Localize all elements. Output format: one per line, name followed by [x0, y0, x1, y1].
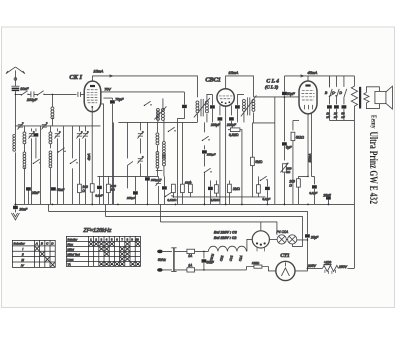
- wire pilots: [286, 238, 307, 241]
- resistor cathode CK1: [90, 184, 94, 192]
- resistor 4,5M x216: [215, 180, 219, 197]
- wire column x50: [49, 126, 51, 205]
- wire antenna coil left: [14, 94, 16, 204]
- svg-text:Mittel: Mittel: [67, 248, 74, 252]
- IFT2 primary coil: [242, 99, 245, 122]
- branch B: [326, 76, 336, 97]
- capacitor 200pF right: [229, 117, 234, 120]
- CBC1 anode rail: [226, 76, 254, 97]
- switch D: [344, 76, 347, 105]
- IFT1 arrow: [194, 98, 210, 118]
- wire to CY1: [246, 267, 275, 271]
- CL4 pin wire: [310, 113, 312, 176]
- switch S10 (TA): [204, 168, 212, 173]
- IFT2 secondary coil: [252, 99, 255, 123]
- primary zigzag: [351, 76, 357, 108]
- secondary zigzag: [364, 92, 369, 103]
- svg-text:+100: +100: [324, 260, 331, 264]
- wire selector to right riser: [347, 267, 354, 269]
- switch S4: [58, 148, 66, 153]
- output bus 265V: [307, 267, 322, 269]
- svg-text:4,5MΩ: 4,5MΩ: [210, 198, 220, 202]
- svg-text:0,1µF: 0,1µF: [262, 197, 270, 201]
- svg-text:A: A: [35, 242, 38, 246]
- tube CL4 envelope: [299, 81, 317, 114]
- voltage selector zigzag: [322, 265, 338, 271]
- wire x100 anode-side: [100, 104, 103, 205]
- svg-text:Kurz: Kurz: [67, 243, 73, 247]
- svg-text:0,3MΩ: 0,3MΩ: [229, 133, 239, 137]
- capacitor 250pF b: [133, 176, 138, 204]
- capacitor 50nF: [51, 187, 56, 190]
- dial lamp pins: [256, 242, 266, 245]
- wire x40: [39, 126, 41, 205]
- CY1 filament: [281, 262, 289, 276]
- osc coil L6: [162, 120, 165, 176]
- node: [307, 268, 309, 270]
- plug body bar: [173, 248, 175, 272]
- CY1 anode wire: [295, 268, 307, 271]
- resistor 0,5M grid CL4: [251, 123, 255, 197]
- svg-text:50µF: 50µF: [286, 92, 295, 96]
- anode rail 45mA: [284, 75, 354, 77]
- capacitor x267: [265, 180, 270, 204]
- AVC wire y196.5: [173, 196, 265, 198]
- svg-text:I: I: [22, 247, 23, 251]
- svg-text:nF: nF: [341, 115, 345, 119]
- svg-text:15mA: 15mA: [228, 71, 238, 75]
- trimmer C-t4: [54, 128, 60, 204]
- dial lamp tube: [252, 231, 269, 248]
- wire to fuses: [174, 251, 187, 270]
- left table X marks: [35, 246, 55, 266]
- svg-text:CY1: CY1: [280, 253, 290, 259]
- capacitor 25nF: [26, 187, 31, 204]
- wires from fuses: [195, 251, 247, 270]
- switch S3: [33, 159, 41, 164]
- speaker magnet: [375, 91, 386, 103]
- wire: [219, 121, 221, 205]
- wire lamp to pilots: [269, 238, 277, 240]
- trimmer C-t3: [28, 128, 34, 204]
- svg-text:P4 C1A: P4 C1A: [276, 230, 288, 234]
- capacitor 50uF: [282, 76, 287, 98]
- capacitor 200pF: [31, 91, 37, 97]
- capacitor 25uF psu: [305, 232, 310, 268]
- IFT1 primary coil: [196, 101, 199, 123]
- svg-text:51kΩ: 51kΩ: [296, 135, 304, 139]
- wire y170 link: [156, 169, 163, 171]
- svg-text:200pF: 200pF: [26, 98, 38, 102]
- bus line 3: [105, 204, 302, 246]
- right table text: [67, 238, 139, 267]
- svg-text:25µF: 25µF: [310, 235, 319, 239]
- trimmer C-t2: [41, 122, 47, 129]
- branch wires: [329, 88, 346, 96]
- svg-text:B: B: [41, 242, 43, 246]
- trimmer C-t8: [137, 156, 143, 176]
- resistor 200ohm: [297, 176, 301, 204]
- svg-text:15mA: 15mA: [93, 69, 103, 73]
- svg-text:Mittel Tast: Mittel Tast: [67, 253, 79, 257]
- svg-text:C: C: [332, 91, 335, 95]
- trimmer C-t7: [137, 122, 143, 153]
- svg-text:50Hz: 50Hz: [158, 258, 166, 262]
- capacitor D: [342, 105, 347, 120]
- resistor 51k: [291, 120, 299, 204]
- tone bus: [329, 119, 354, 121]
- IFT1 tuning cap: [210, 94, 215, 122]
- switch S8: [168, 127, 176, 132]
- mains plug pin top: [157, 250, 163, 254]
- plug prongs: [163, 251, 172, 270]
- fuse 1A bottom: [187, 268, 195, 272]
- coil L2: [51, 107, 54, 119]
- svg-text:265V: 265V: [307, 264, 317, 268]
- capacitor x164: [162, 176, 167, 204]
- svg-text:250V: 250V: [338, 265, 348, 269]
- resistor x190: [189, 180, 193, 197]
- resistor x182: [181, 122, 185, 204]
- capacitor 70pF: [103, 98, 114, 204]
- switch S12: [165, 192, 173, 197]
- wire x72: [71, 126, 73, 205]
- osc transformer T1: [154, 98, 166, 122]
- wire horizontal bus y125.5: [15, 125, 100, 127]
- antenna coil L1: [13, 134, 16, 151]
- svg-text:0,1µF: 0,1µF: [309, 191, 317, 195]
- switch 2: [37, 91, 45, 96]
- svg-text:200pF: 200pF: [226, 123, 237, 127]
- svg-text:150pF: 150pF: [207, 152, 216, 156]
- svg-text:0,1MΩ: 0,1MΩ: [167, 198, 177, 202]
- svg-text:Bei 220V : C3: Bei 220V : C3: [214, 230, 237, 234]
- trimmer C-t6: [82, 126, 88, 205]
- trimmer C-t9: [155, 176, 161, 204]
- svg-text:Schalter: Schalter: [13, 242, 25, 246]
- pilot lamp 1: [277, 235, 286, 244]
- right switch table: [66, 236, 140, 266]
- wire from 0,3M: [228, 130, 242, 205]
- right table X marks: [89, 242, 140, 266]
- screen wire 70V: [101, 91, 185, 93]
- svg-text:20nF: 20nF: [18, 207, 28, 211]
- left table text: [13, 242, 54, 268]
- pilot lamp 2: [288, 235, 297, 244]
- svg-text:10nF: 10nF: [20, 87, 29, 91]
- CBC1 pin wires: [220, 105, 232, 204]
- svg-text:Lang: Lang: [67, 258, 73, 262]
- svg-text:125Ω: 125Ω: [252, 261, 260, 265]
- antenna: [6, 67, 25, 87]
- IFT2 tuning cap: [235, 94, 244, 122]
- capacitor 10nF: [11, 86, 19, 94]
- svg-text:70pF: 70pF: [115, 98, 124, 102]
- svg-text:(C L 2): (C L 2): [265, 84, 279, 89]
- resistor x258: [257, 176, 261, 197]
- capacitor C: [334, 105, 339, 120]
- coil L3a: [23, 132, 26, 144]
- IFT2 core: [248, 97, 250, 115]
- wire: [230, 121, 232, 126]
- switch S11: [260, 176, 268, 181]
- svg-text:10: 10: [136, 238, 139, 242]
- CK1 cathode dot: [91, 106, 93, 108]
- capacitor 150pF: [202, 122, 207, 166]
- svg-text:25µF: 25µF: [322, 193, 331, 197]
- wire x127: [127, 122, 133, 188]
- svg-text:45mA: 45mA: [307, 71, 317, 75]
- node: [52, 94, 54, 96]
- CK1 grid dashes: [87, 90, 98, 103]
- grid leak bus: [252, 122, 274, 124]
- capacitor 250pF a: [145, 122, 150, 204]
- CL4 getter: [305, 84, 310, 86]
- switch S5: [70, 159, 78, 164]
- svg-text:nF: nF: [334, 115, 338, 119]
- CL4 cathode wire: [298, 114, 308, 177]
- anode rail CK1: [93, 76, 198, 98]
- earth cap 20nF: [13, 204, 18, 212]
- CL4 grid dashes: [301, 90, 314, 100]
- svg-text:0,1µF: 0,1µF: [95, 193, 102, 197]
- resistor 125ohm: [254, 265, 262, 268]
- resistor 2M x229: [228, 180, 232, 204]
- resistor 0,1M x173: [172, 184, 176, 198]
- CL4 cathode marks: [304, 105, 312, 110]
- grid capacitor: [78, 92, 84, 97]
- wire: [28, 93, 30, 95]
- resistor 100ohm: [78, 184, 82, 192]
- capacitor 0,1uF cathode: [307, 176, 317, 205]
- svg-text:70V: 70V: [104, 88, 111, 92]
- svg-text:Schalter: Schalter: [67, 238, 77, 242]
- CL4 anode wire: [307, 76, 309, 81]
- wire primary down: [353, 108, 355, 269]
- selector taps: [325, 270, 336, 274]
- core bar: [359, 87, 361, 109]
- svg-text:D: D: [339, 91, 342, 95]
- bus line 4: [160, 204, 277, 235]
- capacitor 200pF left: [218, 117, 223, 120]
- main earth bus: [14, 203, 354, 205]
- svg-text:nF: nF: [326, 115, 330, 119]
- svg-text:4mA: 4mA: [87, 153, 91, 161]
- wire x113: [112, 122, 114, 204]
- svg-text:III: III: [21, 258, 24, 262]
- node junction: [15, 94, 17, 96]
- left switch table: [12, 240, 55, 267]
- tube CBC1 envelope: [217, 89, 234, 106]
- svg-text:5MΩ: 5MΩ: [255, 160, 262, 164]
- IFT1 primary tuning cap: [177, 92, 186, 119]
- IFT1 secondary coil: [205, 94, 212, 122]
- bus y122: [118, 121, 197, 123]
- wire osc coupling: [51, 94, 53, 126]
- fuse 1A top: [187, 249, 195, 253]
- svg-text:CK I: CK I: [69, 74, 82, 81]
- capacitor B: [327, 105, 332, 120]
- switch S9: [202, 136, 210, 141]
- wire branch x274: [274, 97, 276, 205]
- bus line 2: [48, 204, 307, 232]
- secondary loop: [366, 87, 379, 109]
- coil L4b: [49, 151, 52, 168]
- svg-text:200pF: 200pF: [210, 123, 221, 127]
- CBC1 cathode dots: [221, 101, 230, 104]
- svg-text:2MΩ: 2MΩ: [232, 187, 240, 191]
- resistor 0,3M: [230, 128, 240, 132]
- wire to CK1 grid: [44, 93, 76, 95]
- svg-text:250pF: 250pF: [126, 196, 136, 200]
- mains plug pin bottom: [157, 268, 163, 272]
- speaker horn: [386, 86, 393, 109]
- AVC wire y176: [97, 175, 158, 177]
- resistor x108: [107, 176, 111, 204]
- IFT1 core: [201, 99, 203, 117]
- IFT2 arrow: [241, 95, 257, 116]
- osc coil L5: [156, 122, 159, 176]
- CBC1 internals: [219, 96, 233, 99]
- capacitor 5uF: [282, 97, 287, 160]
- svg-text:50nF: 50nF: [57, 188, 65, 192]
- svg-text:ZF=128kHz: ZF=128kHz: [82, 228, 111, 234]
- wire antenna node: [15, 93, 21, 95]
- trimmer C-t1: [17, 122, 23, 129]
- svg-text:Bei 110V : C2: Bei 110V : C2: [214, 236, 237, 240]
- pot 250k: [280, 163, 288, 205]
- junction dots on bus: [15, 204, 330, 206]
- capacitor pad: [34, 128, 39, 158]
- CK1 getter: [90, 85, 95, 87]
- tube CY1 envelope: [276, 261, 295, 280]
- capacitor x210: [208, 180, 213, 204]
- wire column x24: [23, 126, 25, 205]
- switch 1: [21, 91, 29, 96]
- svg-text:Eemy: Eemy: [369, 115, 376, 129]
- wire x177: [176, 118, 178, 204]
- coil L3b: [23, 152, 26, 169]
- capacitor x99: [97, 176, 102, 204]
- coil L4a: [49, 132, 52, 144]
- ground: [11, 213, 19, 220]
- mains capacitor 50nF: [202, 251, 207, 271]
- CK1 cathode wire: [91, 107, 93, 204]
- capacitor 25uF: [326, 196, 331, 204]
- wire x63: [62, 126, 64, 205]
- switch S6: [144, 101, 152, 106]
- dial lamp top wire: [260, 222, 262, 231]
- wire chain to lamp: [247, 239, 252, 251]
- svg-text:25nF: 25nF: [31, 191, 40, 195]
- dial lamp pin stubs: [257, 248, 265, 252]
- svg-text:TA: TA: [67, 263, 70, 267]
- wire grid CL4: [253, 96, 299, 98]
- trimmer C-t5: [76, 126, 82, 205]
- tube CK1 envelope: [84, 81, 101, 112]
- switch C: [336, 76, 339, 105]
- switch B: [329, 76, 332, 105]
- svg-text:CBC1: CBC1: [205, 76, 220, 83]
- wire x204 down: [203, 172, 205, 204]
- heater chain: [208, 246, 246, 251]
- rail tick: [109, 75, 112, 77]
- svg-text:Ultra Prinz GW E 432: Ultra Prinz GW E 432: [367, 132, 381, 205]
- svg-text:II: II: [22, 253, 24, 257]
